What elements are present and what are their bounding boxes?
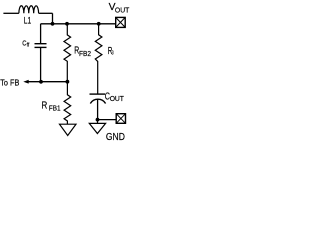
wire <box>40 24 42 44</box>
wire <box>40 47 42 81</box>
svg-text:OUT: OUT <box>110 96 125 103</box>
wire <box>3 12 19 14</box>
label COUT <box>105 91 125 103</box>
junction <box>51 22 55 26</box>
svg-text:FB1: FB1 <box>49 105 61 112</box>
svg-text:To FB: To FB <box>0 77 19 87</box>
capacitor Cff <box>35 44 47 48</box>
junction <box>96 118 100 122</box>
ground <box>60 124 77 135</box>
wire <box>39 12 53 14</box>
svg-text:ff: ff <box>27 43 30 49</box>
svg-text:3: 3 <box>112 51 114 57</box>
junction <box>97 22 101 26</box>
wire <box>98 119 117 121</box>
ground <box>89 120 105 134</box>
wire <box>52 13 54 23</box>
resistor RFB2 <box>64 24 71 82</box>
resistor R3 <box>95 24 102 94</box>
label VOUT <box>109 2 130 15</box>
svg-text:GND: GND <box>106 132 125 143</box>
node To FB arrow <box>23 80 28 84</box>
terminal GND <box>116 114 125 124</box>
terminal VOUT <box>116 17 126 27</box>
label RFB1 <box>42 100 61 112</box>
label R3 <box>108 46 114 57</box>
capacitor COUT <box>90 94 106 103</box>
svg-text:FB2: FB2 <box>79 51 91 58</box>
label RFB2 <box>74 46 91 58</box>
svg-text:OUT: OUT <box>115 5 130 14</box>
wire <box>97 99 99 119</box>
svg-text:L1: L1 <box>24 15 31 25</box>
resistor RFB1 <box>64 82 71 125</box>
junction <box>66 80 70 84</box>
node To FB rail <box>28 81 67 83</box>
junction <box>65 22 69 26</box>
node VOUT bus <box>41 23 116 25</box>
label Cff <box>22 39 30 49</box>
junction <box>39 80 43 84</box>
inductor L1 <box>19 6 39 14</box>
svg-text:R: R <box>42 100 48 111</box>
